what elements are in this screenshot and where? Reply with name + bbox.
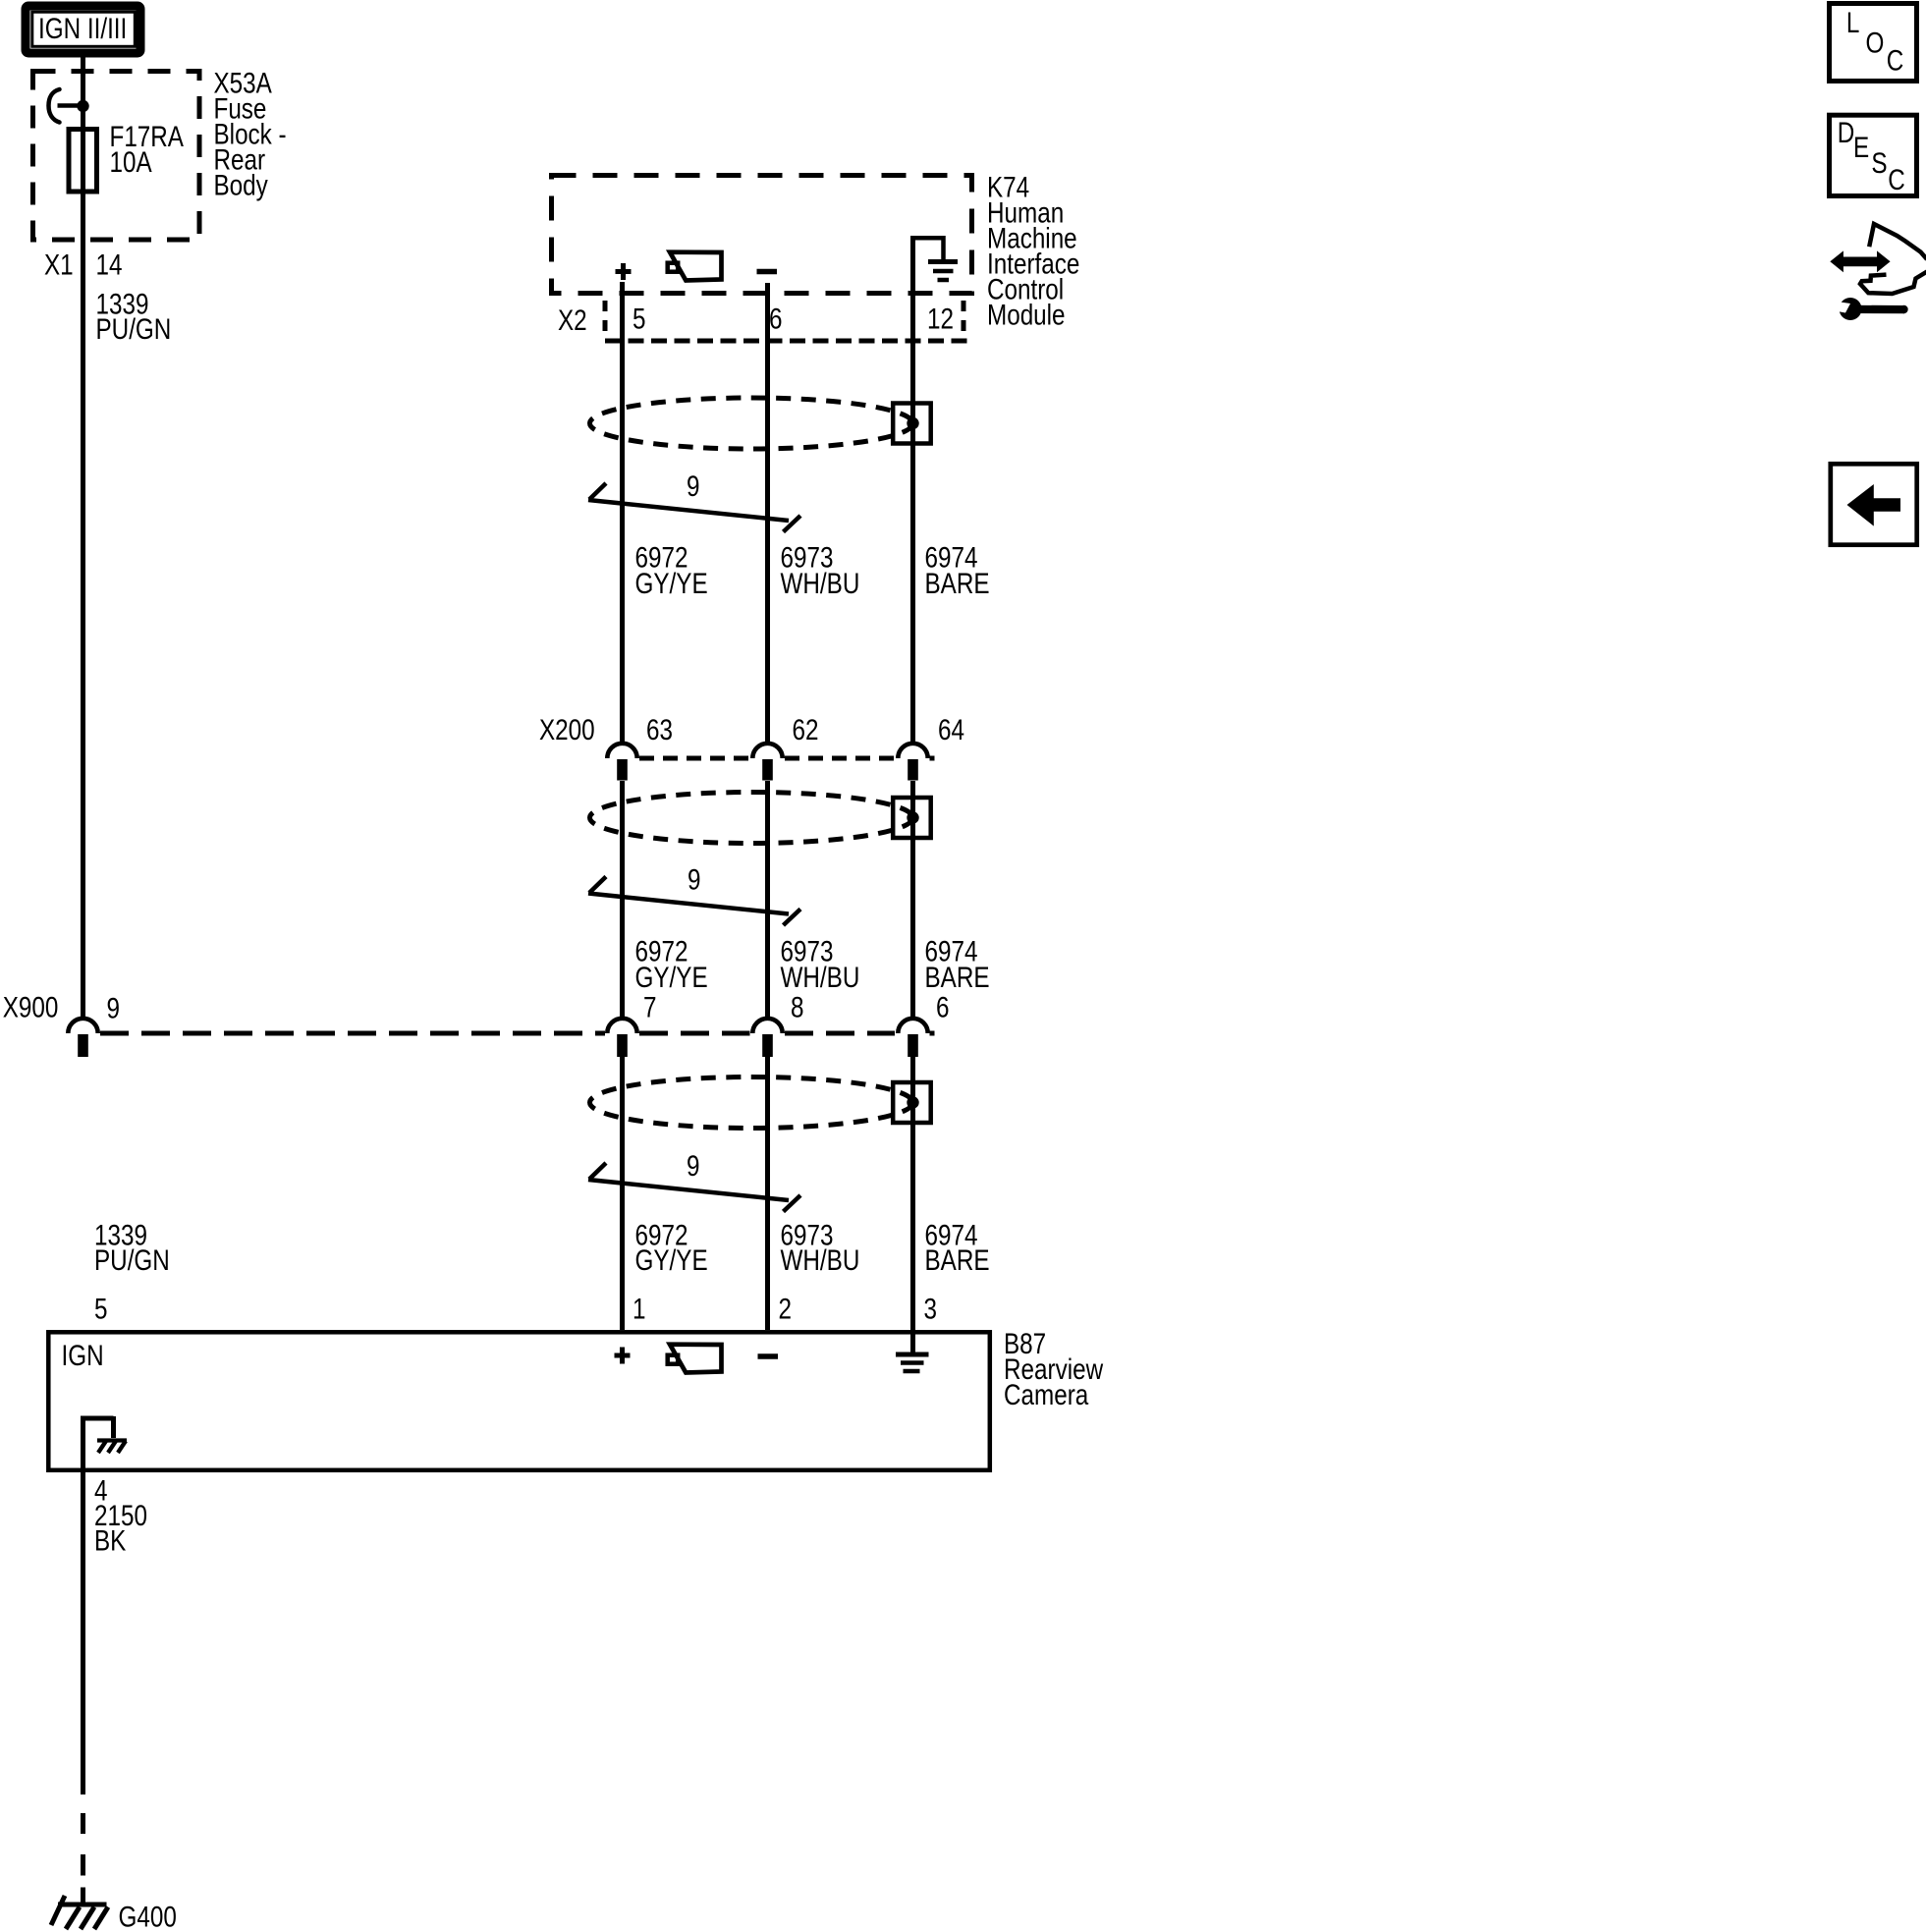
svg-text:Body: Body xyxy=(214,169,269,201)
svg-text:14: 14 xyxy=(96,248,123,281)
svg-text:1: 1 xyxy=(633,1293,645,1325)
svg-text:L: L xyxy=(1846,7,1859,39)
svg-text:GY/YE: GY/YE xyxy=(635,1244,708,1277)
svg-text:Module: Module xyxy=(987,299,1066,331)
shield ellipse section 1 xyxy=(590,398,931,449)
svg-text:9: 9 xyxy=(688,863,700,896)
svg-text:IGN II/III: IGN II/III xyxy=(38,13,127,45)
ground symbol inside B87 xyxy=(896,1354,929,1371)
pin 4 wire and elbow inside B87 xyxy=(83,1418,114,1794)
svg-text:WH/BU: WH/BU xyxy=(781,568,860,600)
svg-text:10A: 10A xyxy=(110,146,152,179)
svg-text:62: 62 xyxy=(793,714,819,746)
twisted-pair symbol section 1 xyxy=(588,483,800,532)
svg-text:BARE: BARE xyxy=(925,568,990,600)
svg-text:E: E xyxy=(1853,132,1869,164)
vehicle navigation icon with double arrow xyxy=(1830,224,1926,294)
svg-text:63: 63 xyxy=(646,714,673,746)
wire 6973 WH/BU (circuit 2) xyxy=(765,283,770,1330)
svg-text:GY/YE: GY/YE xyxy=(635,962,708,994)
connector X2 band xyxy=(605,301,967,341)
plus terminal symbol (B87) xyxy=(615,1348,631,1364)
svg-text:X900: X900 xyxy=(3,991,59,1023)
svg-text:X200: X200 xyxy=(539,714,595,746)
svg-text:6: 6 xyxy=(769,303,782,335)
svg-text:WH/BU: WH/BU xyxy=(781,1244,860,1277)
svg-text:O: O xyxy=(1866,27,1885,59)
svg-text:5: 5 xyxy=(94,1293,107,1325)
svg-text:Camera: Camera xyxy=(1004,1379,1089,1411)
svg-text:3: 3 xyxy=(924,1293,937,1325)
svg-text:7: 7 xyxy=(643,991,656,1023)
camera symbol (B87) xyxy=(668,1345,722,1373)
connector X900 row xyxy=(68,1019,934,1057)
svg-text:C: C xyxy=(1888,164,1905,196)
DESC nav box xyxy=(1830,115,1917,195)
svg-text:8: 8 xyxy=(791,991,803,1023)
svg-text:D: D xyxy=(1838,117,1855,149)
svg-text:WH/BU: WH/BU xyxy=(781,962,860,994)
svg-text:X1: X1 xyxy=(44,248,74,281)
plus terminal symbol (K74) xyxy=(616,263,632,280)
power feed label box IGN II/III xyxy=(26,6,140,53)
svg-text:IGN: IGN xyxy=(62,1340,104,1372)
svg-text:64: 64 xyxy=(938,714,964,746)
svg-text:S: S xyxy=(1871,147,1887,180)
ground G400 symbol xyxy=(51,1896,108,1929)
svg-text:GY/YE: GY/YE xyxy=(635,568,708,600)
twisted-pair symbol section 3 xyxy=(588,1163,800,1212)
wire 6974 BARE shield drain (circuit 3) xyxy=(910,236,915,1354)
chassis ground symbol inside B87 xyxy=(97,1441,127,1454)
svg-text:BARE: BARE xyxy=(925,962,990,994)
twisted-pair symbol section 2 xyxy=(588,877,800,926)
svg-text:PU/GN: PU/GN xyxy=(94,1244,170,1277)
svg-text:2: 2 xyxy=(779,1293,792,1325)
wire: IGN feed into fuse block xyxy=(81,58,85,1019)
svg-text:BK: BK xyxy=(94,1524,126,1557)
svg-text:9: 9 xyxy=(107,992,120,1024)
wire 2150 BK dashed to ground xyxy=(81,1813,85,1903)
bus bar tap symbol xyxy=(49,89,60,123)
wire: tap to junction xyxy=(58,103,83,108)
svg-text:C: C xyxy=(1887,44,1904,77)
svg-text:X2: X2 xyxy=(558,304,587,337)
connector X200 row xyxy=(607,744,934,781)
minus terminal symbol (K74) xyxy=(757,269,778,275)
fuse block X53A dashed outline xyxy=(33,72,200,241)
svg-text:9: 9 xyxy=(687,1150,699,1183)
svg-text:5: 5 xyxy=(633,303,645,335)
svg-text:PU/GN: PU/GN xyxy=(96,313,172,346)
wire 6972 GY/YE (circuit 1) xyxy=(620,282,625,1330)
module K74 dashed outline xyxy=(552,176,972,294)
svg-text:9: 9 xyxy=(687,470,699,503)
ground symbol inside K74 xyxy=(913,238,959,280)
svg-text:12: 12 xyxy=(927,303,954,335)
svg-text:G400: G400 xyxy=(119,1901,177,1932)
svg-text:6: 6 xyxy=(936,991,949,1023)
back arrow nav box xyxy=(1831,464,1917,544)
component B87 Rearview Camera box xyxy=(48,1332,990,1470)
LOC nav box xyxy=(1830,4,1917,82)
minus terminal symbol (B87) xyxy=(758,1353,779,1359)
shield ellipse section 3 xyxy=(590,1077,931,1129)
svg-text:BARE: BARE xyxy=(925,1244,990,1277)
junction dot xyxy=(77,100,88,112)
shield ellipse section 2 xyxy=(590,793,931,844)
fuse F17RA xyxy=(69,130,97,193)
wrench icon xyxy=(1827,298,1908,320)
camera symbol (K74) xyxy=(668,252,722,281)
